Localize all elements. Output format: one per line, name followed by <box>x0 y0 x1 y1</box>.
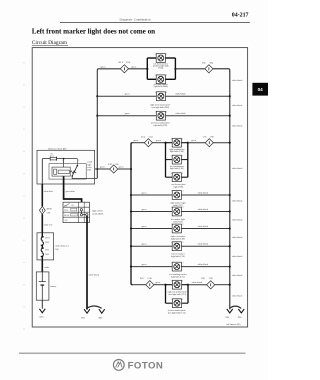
lamp E7 rear license plate <box>171 173 183 182</box>
wire: left feed bus (vertical, x=97.3) <box>97 69 120 179</box>
node: right bus / row E <box>229 194 231 196</box>
svg-text:tion light bulb (C13): tion light bulb (C13) <box>168 311 186 314</box>
svg-text:Left front marker light does n: Left front marker light does not come on <box>32 27 155 35</box>
svg-text:1: 1 <box>171 299 172 301</box>
svg-text:1: 1 <box>155 111 156 113</box>
wire: to battery <box>41 260 43 272</box>
wire: row J right <box>188 284 207 286</box>
wire label white-black (row H) <box>198 244 209 246</box>
node: secondary bus / relay row <box>130 168 132 170</box>
svg-text:C09: C09 <box>209 278 213 280</box>
subtitle Circuit Diagram <box>32 40 68 46</box>
svg-text:white-red: white-red <box>44 224 53 226</box>
svg-text:light bulb (C05): light bulb (C05) <box>170 167 184 170</box>
wire label green (relay row right) <box>119 166 125 169</box>
svg-text:white-black: white-black <box>232 219 243 221</box>
svg-text:2: 2 <box>183 242 184 244</box>
svg-text:2: 2 <box>182 173 183 175</box>
label light control switch <box>92 210 103 216</box>
fuse F5 <box>42 157 77 161</box>
connector X3 (diamond B-03/C06) <box>108 164 119 173</box>
node: right bus / row D <box>229 142 231 144</box>
lamp E3 right front marker bulb <box>155 92 167 101</box>
connector box (main harness) <box>37 233 54 260</box>
svg-text:left marker light: left marker light <box>171 218 185 221</box>
wire: row A to right bus corner <box>213 69 230 310</box>
svg-text:green: green <box>142 208 148 211</box>
svg-text:2: 2 <box>183 191 184 193</box>
svg-text:C06: C06 <box>115 164 120 166</box>
svg-text:white-black: white-black <box>232 80 243 82</box>
label lamp E10 <box>171 235 186 241</box>
lamp E5 right combination marker <box>171 138 183 147</box>
svg-text:C05: C05 <box>203 137 208 139</box>
svg-text:white-black: white-black <box>198 264 209 266</box>
label lamp E6 <box>170 165 185 170</box>
wire: row D left <box>132 142 144 144</box>
switch S1 box <box>63 202 90 222</box>
svg-text:green: green <box>142 243 148 246</box>
battery BT1 symbol <box>39 272 46 300</box>
wire label green (row G) <box>142 225 148 228</box>
svg-text:white-black: white-black <box>192 282 203 284</box>
connector X4 (diamond L1/4 C04) <box>141 137 154 147</box>
svg-text:green: green <box>131 66 137 69</box>
node: secondary bus / row H <box>130 245 132 247</box>
relay K1 inner box <box>49 164 86 180</box>
wire label green (row D mid) <box>156 139 162 142</box>
svg-text:3: 3 <box>78 160 79 162</box>
wire label white-black (row C) <box>175 113 186 115</box>
lamp E14 left rear marker/position <box>171 299 183 308</box>
svg-text:BF08: BF08 <box>47 209 53 211</box>
relay switch contact <box>71 163 97 178</box>
svg-text:right marker light: right marker light <box>170 202 186 205</box>
svg-text:battery: battery <box>50 286 57 288</box>
svg-text:B-17: B-17 <box>140 278 145 280</box>
header rule <box>60 22 250 24</box>
ground arrow B02 <box>99 309 105 313</box>
label main harness <box>55 245 69 251</box>
svg-text:white-black: white-black <box>232 256 243 258</box>
wire: row D diamond to group <box>153 142 166 144</box>
svg-text:green: green <box>142 225 148 228</box>
node: junction bus / row C <box>96 115 98 117</box>
wire: fuse to coil feed node <box>63 158 65 167</box>
wire: row F <box>131 211 230 213</box>
svg-text:1: 1 <box>155 54 156 56</box>
svg-text:white-black: white-black <box>232 275 243 277</box>
svg-text:BF 4: BF 4 <box>119 62 124 64</box>
svg-text:C04: C04 <box>149 137 154 139</box>
wire label green-blue <box>66 190 75 193</box>
node: junction bus / row B <box>96 95 98 97</box>
svg-text:Diagnosis Combination: Diagnosis Combination <box>120 18 151 22</box>
svg-text:1: 1 <box>155 92 156 94</box>
wire label white-black (row J) <box>192 282 203 284</box>
node: secondary bus / row G <box>130 227 132 229</box>
FOTON wordmark <box>128 360 164 371</box>
svg-text:L1/4: L1/4 <box>141 137 146 139</box>
wire label white-blue <box>44 191 53 193</box>
svg-text:2: 2 <box>183 262 184 264</box>
svg-text:green: green <box>156 139 162 142</box>
wire: row H <box>131 245 230 247</box>
svg-text:small: small <box>87 162 92 164</box>
label lamp E7 <box>171 184 186 189</box>
battery box <box>36 272 49 300</box>
wire: white-red drop <box>41 214 43 233</box>
svg-text:C-06: C-06 <box>147 278 152 280</box>
relay coil <box>52 167 76 176</box>
wire: row A right of lamp group <box>175 68 204 70</box>
svg-text:light: light <box>87 163 91 166</box>
svg-text:bulb (C08): bulb (C08) <box>173 221 183 224</box>
svg-text:OFF: OFF <box>64 206 67 208</box>
svg-text:left rear marker/posi-: left rear marker/posi- <box>168 309 186 312</box>
node: right bus / row C <box>229 115 231 117</box>
svg-text:C08: C08 <box>201 278 206 280</box>
svg-text:2: 2 <box>183 207 184 209</box>
wire: row B <box>97 95 229 97</box>
wire label white-black (row E) <box>198 192 209 194</box>
wire label green (row D right) <box>191 139 197 142</box>
wire label green (row J) <box>155 281 161 284</box>
ground arrow battery earth <box>39 309 45 313</box>
svg-text:earth: earth <box>39 316 44 318</box>
svg-text:2: 2 <box>182 299 183 301</box>
svg-text:R05L: R05L <box>45 242 49 244</box>
wire: fuse left leg down to exit <box>41 159 43 184</box>
wire: right bus hump to second ground <box>230 306 241 308</box>
ground arrow right bus main <box>227 309 233 313</box>
wire label white-black (switch drop) <box>89 274 100 276</box>
svg-text:B01: B01 <box>81 318 85 320</box>
footer rule <box>19 352 246 354</box>
label earth <box>39 316 44 318</box>
svg-text:right rear marker: right rear marker <box>171 235 186 238</box>
svg-text:R05L: R05L <box>45 254 49 256</box>
wire label green (row H) <box>142 243 148 246</box>
svg-text:tion light bulb (C12): tion light bulb (C12) <box>168 293 186 296</box>
node: right bus / row B <box>229 95 231 97</box>
svg-text:E04: E04 <box>210 62 214 64</box>
switch contacts <box>80 209 88 216</box>
svg-text:1 2 3: 1 2 3 <box>71 205 75 207</box>
svg-text:right rear marker/posi-: right rear marker/posi- <box>168 291 188 294</box>
connector X1 (diamond BF4/F5-4) <box>119 62 132 73</box>
svg-text:B02: B02 <box>99 318 103 320</box>
label lamp E14 <box>168 309 186 315</box>
svg-text:white-black: white-black <box>175 113 186 115</box>
label lamp E8 <box>170 202 186 208</box>
connector pair P1 <box>41 236 51 247</box>
svg-text:HEAD: HEAD <box>64 214 70 217</box>
wire: row J diamond to group <box>154 284 166 286</box>
label lamp E11 <box>171 252 185 258</box>
node: lamp group A left <box>146 68 148 70</box>
svg-text:green: green <box>125 93 131 96</box>
svg-text:green: green <box>191 139 197 142</box>
svg-text:green: green <box>100 166 106 169</box>
wire: row E <box>131 194 230 196</box>
svg-text:1: 1 <box>171 242 172 244</box>
svg-text:tail harness (06): tail harness (06) <box>227 323 241 326</box>
svg-text:B-02: B-02 <box>45 249 49 251</box>
connector X5 (diamond C05/C08) <box>203 137 215 147</box>
header page number 04-217 <box>232 13 249 19</box>
label small light relay <box>87 162 92 172</box>
FOTON logo circle <box>113 360 124 371</box>
svg-text:C04: C04 <box>55 249 59 251</box>
ground labels E05 E06 <box>226 317 243 319</box>
wire label green (relay row left) <box>100 166 106 169</box>
wire label green (row D left) <box>133 139 139 142</box>
wire label white-black (row I) <box>198 264 209 266</box>
svg-text:white-black: white-black <box>232 201 243 203</box>
svg-text:( main harness ): ( main harness ) <box>55 245 69 248</box>
svg-text:light bulb (C09): light bulb (C09) <box>171 238 185 241</box>
svg-text:green-blue: green-blue <box>66 190 75 193</box>
svg-text:green: green <box>133 139 139 142</box>
svg-text:1: 1 <box>171 207 172 209</box>
lamp E10 right rear marker <box>171 224 183 233</box>
lamp E6 left combination marker <box>171 155 183 164</box>
svg-text:white-black: white-black <box>198 192 209 194</box>
connector X8 (diamond BF08/C06) <box>39 206 52 214</box>
svg-text:C06: C06 <box>47 212 52 214</box>
svg-text:left front combination: left front combination <box>151 121 171 124</box>
svg-text:bulb (C07): bulb (C07) <box>173 204 183 207</box>
wire: row I <box>131 266 230 268</box>
svg-text:green: green <box>155 281 161 284</box>
label lamp E3 <box>150 103 170 109</box>
connector X6 (diamond B-17/C-06) <box>140 278 154 289</box>
wire label green (row F) <box>142 208 148 211</box>
node: right bus / row F <box>229 210 231 212</box>
svg-text:C08: C08 <box>210 137 215 139</box>
node: junction bus / relay output row <box>96 168 98 170</box>
node: secondary bus / row E <box>130 194 132 196</box>
lamp group D rails <box>166 143 188 178</box>
svg-text:2: 2 <box>182 281 183 283</box>
wire label green (row A mid) <box>131 66 137 69</box>
label fuse F5 <box>50 153 54 157</box>
relay pin ticks <box>62 159 79 163</box>
wire: battery to earth <box>41 300 43 308</box>
ground arrow switch drop main <box>84 309 90 313</box>
wire label white <box>44 267 49 269</box>
label tail harness <box>227 323 241 326</box>
lamp group J rails <box>166 285 189 304</box>
svg-text:white-black: white-black <box>232 105 243 107</box>
label lamp E12 <box>169 273 187 279</box>
wire: row G <box>131 228 230 230</box>
wire labels white-black along right bus <box>232 80 243 298</box>
svg-text:2: 2 <box>182 155 183 157</box>
svg-text:04: 04 <box>258 87 264 92</box>
wire label white-black (row B) <box>175 93 186 95</box>
svg-text:light bulb (M04): light bulb (M04) <box>154 85 169 88</box>
lamp E1 left front marker light bulb (upper) <box>155 54 167 63</box>
label lamp E13 <box>168 291 188 297</box>
label lamp E9 <box>171 218 185 224</box>
svg-text:light bulb (F09): light bulb (F09) <box>154 124 168 127</box>
svg-text:E06: E06 <box>238 317 242 319</box>
wire: row C <box>97 115 229 117</box>
svg-text:white-black: white-black <box>232 126 243 128</box>
svg-text:1: 1 <box>171 155 172 157</box>
svg-text:(B): (B) <box>65 219 68 222</box>
svg-text:(F04): (F04) <box>158 67 163 70</box>
label lamp E1 <box>153 62 169 69</box>
svg-text:2: 2 <box>183 224 184 226</box>
node: right bus / row J <box>229 284 231 286</box>
label lamp E5 <box>169 148 185 153</box>
diagram border frame <box>32 48 247 327</box>
svg-text:white-black: white-black <box>175 93 186 95</box>
lamp E11 left rear marker <box>171 242 183 251</box>
svg-text:relay: relay <box>87 167 92 169</box>
wire inside connector box <box>41 233 43 260</box>
lamp E4 left front combination bulb <box>155 111 167 120</box>
connector X7 (diamond C08/C09) <box>201 278 215 289</box>
connector X2 (diamond F04/E04) <box>202 62 214 73</box>
svg-text:white: white <box>44 267 49 269</box>
svg-text:2: 2 <box>166 111 167 113</box>
wire label white-black (row G) <box>198 226 209 228</box>
node: lamp group A right <box>174 68 176 70</box>
svg-text:green: green <box>142 263 148 266</box>
node: right bus / row H <box>229 245 231 247</box>
lamp E8 right marker light <box>171 191 183 200</box>
wire: row D to right bus <box>213 142 229 144</box>
svg-text:1: 1 <box>171 139 172 141</box>
title <box>32 27 155 35</box>
svg-text:white-black: white-black <box>198 244 209 246</box>
lamp E13 right rear marker/position <box>171 280 183 289</box>
svg-text:1: 1 <box>171 173 172 175</box>
wire: switch ground drop <box>86 216 88 310</box>
wire label green (row E) <box>142 191 148 194</box>
svg-text:green: green <box>125 112 131 115</box>
svg-text:F5/4: F5/4 <box>126 62 131 64</box>
svg-text:1: 1 <box>171 262 172 264</box>
lamp group A rails (parallel loop) <box>147 58 175 79</box>
svg-text:tion light bulb (F08): tion light bulb (F08) <box>152 106 170 109</box>
svg-text:2: 2 <box>166 54 167 56</box>
wire: green-blue drop to light switch <box>64 176 82 202</box>
svg-text:white-black: white-black <box>232 296 243 298</box>
node: group J right <box>187 284 189 286</box>
svg-text:white-black: white-black <box>198 226 209 228</box>
svg-text:B06: B06 <box>87 170 91 172</box>
svg-text:2: 2 <box>166 92 167 94</box>
node: group D right <box>187 142 189 144</box>
svg-text:1: 1 <box>171 281 172 283</box>
svg-text:TAIL: TAIL <box>64 209 68 212</box>
svg-text:green: green <box>142 191 148 194</box>
svg-text:1: 1 <box>171 191 172 193</box>
svg-text:white-black: white-black <box>232 168 243 170</box>
wire: hump to second ground B02 <box>87 306 102 308</box>
svg-text:B 03: B 03 <box>108 164 113 166</box>
wire label green (row C) <box>125 112 131 115</box>
wire: relay output row y=169 <box>95 168 131 170</box>
wire: white-blue drop <box>41 184 43 206</box>
svg-text:white-black: white-black <box>89 274 100 276</box>
lamp E12 rear working marker <box>171 262 183 271</box>
ground arrow right bus second <box>238 309 244 313</box>
wire label green (row B) <box>125 93 131 96</box>
svg-text:F04: F04 <box>202 62 206 64</box>
svg-text:light bulb (C04): light bulb (C04) <box>170 150 184 153</box>
wire: secondary bus (vertical x=131) <box>131 143 132 285</box>
svg-text:white-blue: white-blue <box>44 191 53 193</box>
svg-text:E05: E05 <box>226 317 230 319</box>
wire label green (row I) <box>142 263 148 266</box>
label lamp E2 <box>154 83 169 88</box>
svg-text:1: 1 <box>171 224 172 226</box>
svg-text:04-217: 04-217 <box>232 13 249 19</box>
svg-text:light bulb (C11): light bulb (C11) <box>171 276 185 279</box>
svg-text:white-black: white-black <box>232 237 243 239</box>
node: group J left <box>164 284 166 286</box>
wire label white-black (row F) <box>198 209 209 211</box>
svg-text:right front marker/posi-: right front marker/posi- <box>150 103 170 106</box>
svg-text:light (C06): light (C06) <box>174 185 184 188</box>
svg-text:green: green <box>101 66 107 69</box>
svg-text:2: 2 <box>182 139 183 141</box>
label body fuse block <box>48 147 66 150</box>
svg-text:FOTON: FOTON <box>128 360 164 371</box>
label battery <box>50 286 57 288</box>
wire label white-red <box>44 224 53 226</box>
svg-text:left rear marker: left rear marker <box>171 252 185 255</box>
lamp E9 left marker light <box>171 207 183 216</box>
node: right bus / row G <box>229 227 231 229</box>
svg-text:1: 1 <box>62 160 63 162</box>
wire: row D right <box>188 142 205 144</box>
svg-text:Body fuse block B06: Body fuse block B06 <box>48 147 66 150</box>
svg-text:Circuit Diagram: Circuit Diagram <box>32 40 68 46</box>
svg-text:green: green <box>119 166 125 169</box>
lamp E2 left front marker light bulb (lower) <box>155 75 167 84</box>
switch cell marks <box>64 203 77 222</box>
punch guide dotted line <box>23 62 25 330</box>
ground labels B01 B02 <box>81 318 102 320</box>
section tab 04 <box>252 83 268 96</box>
svg-text:rear working marker: rear working marker <box>169 273 187 276</box>
wire: row J left <box>132 284 146 286</box>
wire: row A diamond to lamp group <box>129 68 148 70</box>
node: group D left <box>164 142 166 144</box>
header chapter text <box>120 18 151 22</box>
svg-text:B17 R: B17 R <box>45 237 50 239</box>
svg-text:15A: 15A <box>50 155 54 158</box>
svg-text:light control: light control <box>92 210 103 213</box>
wire label green (row A left) <box>101 66 107 69</box>
label lamp E4 <box>151 121 171 127</box>
svg-text:white-black: white-black <box>198 209 209 211</box>
body fuse block box U1 <box>37 150 95 184</box>
wire: row J to right bus <box>215 284 230 286</box>
node: secondary bus / row F <box>130 210 132 212</box>
svg-text:switch (B05): switch (B05) <box>92 213 103 216</box>
svg-text:2: 2 <box>166 75 167 77</box>
node: right bus / row I <box>229 266 231 268</box>
svg-text:light bulb (C10): light bulb (C10) <box>171 255 185 258</box>
